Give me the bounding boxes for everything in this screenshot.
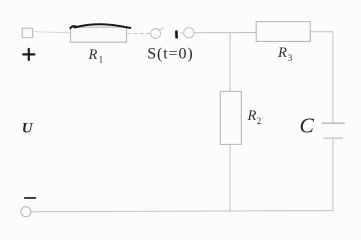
switch annotation tick [175,32,178,38]
wire R3 to top-right corner [310,31,333,33]
resistor R3 [256,22,310,42]
wire node A (junction) to R3 [230,32,256,34]
svg-text:U: U [22,120,34,136]
resistor R2 [220,91,241,144]
svg-text:R: R [88,47,98,63]
capacitor C bottom plate [323,137,343,139]
wire R2 to bottom wire [229,144,231,211]
minus sign [25,197,35,199]
svg-text:1: 1 [99,55,104,65]
terminal + (top-left square terminal) [22,28,32,37]
svg-text:2: 2 [257,116,262,126]
wire tick to switch right contact [180,32,184,34]
wire corner down to capacitor [332,32,334,123]
wire switch to node A [194,32,230,34]
bottom wire [31,211,333,212]
wire capacitor to bottom wire [332,138,334,211]
resistor R1 [71,27,127,42]
annotation stroke over R1 [70,24,130,28]
wire R1 to switch left contact [127,33,151,35]
switch S blade [159,28,163,31]
svg-text:R: R [277,45,287,61]
wire node A down to R2 [229,33,231,92]
svg-text:R: R [247,108,257,124]
switch S left contact [151,29,161,39]
plus sign [23,53,34,55]
svg-text:S(t=0): S(t=0) [147,46,193,63]
wire terminal to R1 [33,32,71,33]
svg-text:3: 3 [288,53,293,63]
switch S right contact [184,28,194,38]
svg-text:C: C [300,113,315,137]
capacitor C top plate [322,122,345,124]
terminal - (bottom-left circle terminal) [21,207,31,217]
